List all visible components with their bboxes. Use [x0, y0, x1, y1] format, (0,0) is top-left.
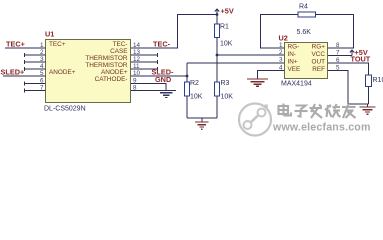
wire SLED- riser to IN+ [186, 63, 188, 82]
svg-text:REF: REF [312, 66, 325, 73]
ground right under R100 [367, 104, 369, 107]
watermark logo circle [239, 104, 271, 136]
svg-text:GND: GND [155, 75, 171, 84]
wire REF to ground [328, 71, 369, 105]
wire pin11 stub [131, 68, 158, 70]
wire node IN- to U2 pin2 [217, 54, 285, 56]
wire VCC to +5V [328, 55, 352, 57]
svg-text:DL-CS5029N: DL-CS5029N [44, 106, 86, 113]
wire pin2 [25, 54, 46, 56]
svg-text:RG+: RG+ [312, 44, 326, 51]
svg-text:U1: U1 [45, 30, 54, 39]
power +5V right [350, 50, 354, 56]
component U2 body [285, 43, 328, 79]
wire pin8 [131, 90, 176, 92]
svg-text:IN-: IN- [288, 51, 297, 58]
svg-text:ANODE+: ANODE+ [49, 69, 76, 76]
watermark chinese 友 [342, 104, 356, 118]
svg-text:THERMISTOR: THERMISTOR [85, 62, 128, 69]
svg-text:3: 3 [279, 57, 283, 64]
svg-text:10K: 10K [190, 94, 203, 101]
ground below R2 R3 [201, 118, 203, 122]
wire node IN+ to U2 pin3 [187, 62, 285, 64]
wire R2/R3 bottoms joined [187, 117, 217, 119]
svg-text:CASE: CASE [110, 48, 127, 55]
wire pin5 SLED+ [3, 75, 46, 77]
component U1 body [46, 40, 131, 103]
watermark chinese 子 [295, 106, 308, 117]
ground under VEE [247, 79, 268, 86]
svg-text:TOUT: TOUT [351, 55, 371, 64]
svg-text:SLED+: SLED+ [1, 68, 25, 77]
svg-text:5.6K: 5.6K [297, 29, 312, 36]
wire pin6 [25, 83, 46, 85]
svg-text:ANODE+: ANODE+ [101, 69, 128, 76]
svg-text:IN+: IN+ [288, 59, 298, 66]
wire VEE to ground [258, 71, 285, 79]
svg-text:2: 2 [279, 49, 283, 56]
svg-text:RG-: RG- [288, 44, 300, 51]
wire pin3 [25, 61, 46, 63]
wire pin4 [25, 68, 46, 70]
svg-text:+5V: +5V [221, 7, 234, 16]
wire pin7 [25, 90, 46, 92]
wire R4 to RG+ [316, 15, 354, 49]
svg-text:TEC-: TEC- [153, 40, 171, 49]
svg-text:THERMISTOR: THERMISTOR [85, 55, 128, 62]
wire pin10 SLED- [131, 75, 187, 77]
svg-text:R4: R4 [299, 4, 308, 11]
wire R1 bottom to R3 [216, 55, 218, 82]
watermark chinese 发 [310, 104, 323, 118]
svg-text:10K: 10K [221, 94, 234, 101]
wire RG- loop to R4 [261, 15, 299, 49]
ground U1 [160, 93, 173, 98]
svg-text:TEC-: TEC- [113, 41, 128, 48]
svg-text:www.elecfans.com: www.elecfans.com [272, 122, 371, 134]
resistor R4 [298, 12, 316, 17]
wire pin12 stub [131, 61, 158, 63]
svg-text:R100: R100 [373, 77, 383, 84]
svg-text:R1: R1 [220, 24, 229, 31]
wire pin1 TEC+ [5, 47, 46, 49]
svg-text:10K: 10K [220, 41, 233, 48]
wire pin9 GND [131, 84, 166, 91]
wire pin14 TEC- to +5V loop [131, 15, 217, 49]
resistor R2 [185, 82, 190, 96]
svg-text:R3: R3 [221, 80, 230, 87]
resistor R1 [215, 24, 220, 38]
wire pin13 stub [131, 54, 158, 56]
svg-text:R2: R2 [190, 80, 199, 87]
resistor R100 [366, 75, 372, 87]
watermark chinese 烧 [325, 104, 341, 118]
svg-text:MAX4194: MAX4194 [281, 81, 312, 88]
wire OUT TOUT to R100 [328, 63, 369, 75]
resistor R3 [215, 82, 220, 96]
svg-text:OUT: OUT [312, 59, 326, 66]
svg-text:VEE: VEE [288, 66, 301, 73]
power +5V top [215, 9, 219, 15]
watermark chinese 电 [279, 104, 292, 116]
svg-text:VCC: VCC [312, 51, 326, 58]
svg-text:TEC+: TEC+ [6, 40, 25, 49]
svg-text:TEC+: TEC+ [49, 41, 66, 48]
svg-text:CATHODE-: CATHODE- [95, 76, 128, 83]
